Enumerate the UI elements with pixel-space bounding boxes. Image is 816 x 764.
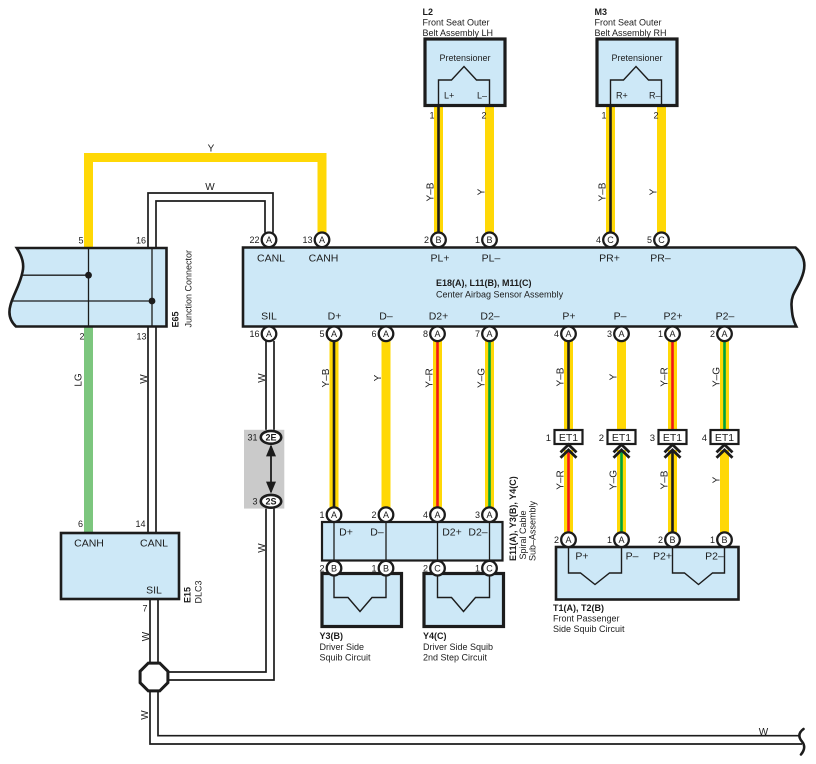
label M3 header: [595, 7, 667, 38]
svg-text:ET1: ET1: [612, 432, 631, 444]
svg-text:Y–B: Y–B: [425, 182, 436, 201]
svg-text:Front Seat Outer: Front Seat Outer: [423, 18, 490, 28]
wire W from junction octagon to right off-page tear: [150, 691, 802, 744]
pin circle 2(B) top of T1/T2 box: [658, 532, 680, 547]
wire Y-B from ET1 pin 3 to T2 2(B): [668, 450, 677, 532]
chevron mark below ET1 pin 3: [665, 445, 681, 458]
svg-text:4: 4: [596, 235, 601, 245]
pin circle 2(A) top of T1/T2 box: [554, 532, 576, 547]
svg-text:C: C: [658, 235, 665, 245]
svg-text:Y: Y: [476, 188, 487, 195]
pin circle 1(A) top of spiral cable: [319, 507, 341, 522]
svg-text:CANH: CANH: [74, 538, 104, 550]
pin numbers of DLC3: [78, 519, 148, 614]
svg-text:B: B: [669, 535, 675, 545]
pin circle 2(A) P2- bottom of center box: [710, 327, 732, 342]
label DLC3 vertical: [194, 580, 204, 603]
top terminal labels inside center box: [257, 253, 671, 265]
svg-text:A: A: [383, 510, 389, 520]
label W vertical segment: [140, 710, 151, 720]
bottom terminal labels inside center box: [261, 311, 734, 323]
pretensioner squib symbol M3: [611, 67, 662, 106]
svg-text:22: 22: [249, 235, 259, 245]
component L2 front seat outer belt assembly LH box: [425, 39, 505, 106]
svg-text:T1(A), T2(B): T1(A), T2(B): [553, 603, 604, 613]
pin circle 7(A) D2- bottom of center box: [475, 327, 497, 342]
connector oval 2S with pin 3: [252, 495, 281, 508]
terminal labels inside spiral cable box: [339, 527, 488, 539]
label Y-R: [659, 367, 670, 386]
svg-text:A: A: [319, 235, 325, 245]
svg-text:1: 1: [607, 535, 612, 545]
pin circle 2(B) bottom of spiral cable: [319, 561, 341, 576]
label W: [139, 374, 150, 384]
label T1(A), T2(B) header: [553, 603, 625, 634]
svg-text:2: 2: [658, 535, 663, 545]
component E65 junction connector box: [9, 248, 166, 327]
label Y: [608, 373, 619, 380]
svg-text:W: W: [140, 710, 151, 720]
svg-text:E15: E15: [183, 587, 193, 603]
pin circle 5(A) D+ bottom of center box: [319, 327, 341, 342]
component T1(A)/T2(B) front passenger side squib circuit box: [556, 547, 739, 600]
svg-text:Y3(B): Y3(B): [320, 631, 344, 641]
svg-text:E11(A), Y3(B), Y4(C): E11(A), Y3(B), Y4(C): [508, 476, 518, 561]
svg-text:Y: Y: [373, 374, 384, 381]
svg-text:D2+: D2+: [429, 311, 449, 323]
wire Y-B from L2 pin 1 to PL+ 2(B): [434, 106, 443, 233]
svg-text:Y–R: Y–R: [555, 470, 566, 489]
svg-text:2: 2: [319, 563, 324, 573]
svg-text:Y–G: Y–G: [608, 470, 619, 490]
pretensioner squib symbol L2: [439, 67, 490, 106]
label L2 header: [423, 7, 494, 38]
svg-text:A: A: [331, 510, 337, 520]
svg-text:1: 1: [475, 563, 480, 573]
label W on white wire: [205, 182, 215, 193]
svg-text:Front Passenger: Front Passenger: [553, 614, 620, 624]
label Y: [373, 374, 384, 381]
svg-text:PR–: PR–: [650, 253, 671, 265]
wire Y-B from 5(A) D+ to spiral cable 1(A): [330, 341, 339, 507]
label Spiral Cable vertical: [518, 510, 528, 559]
svg-text:W: W: [205, 182, 215, 193]
svg-text:L+: L+: [444, 91, 454, 101]
svg-text:P–: P–: [614, 311, 627, 323]
svg-text:L–: L–: [477, 91, 487, 101]
label Y4(C) header: [423, 631, 493, 663]
label W: [257, 543, 268, 553]
internal line D2- through spiral cable: [489, 523, 491, 560]
svg-text:P2+: P2+: [653, 551, 672, 563]
svg-text:2nd Step Circuit: 2nd Step Circuit: [423, 653, 488, 663]
svg-text:2: 2: [371, 510, 376, 520]
component E11/Y3/Y4 spiral cable sub-assembly box: [322, 522, 503, 561]
squib symbol Y3: [334, 574, 386, 612]
svg-text:Center Airbag Sensor Assembly: Center Airbag Sensor Assembly: [436, 290, 564, 300]
svg-text:C: C: [434, 563, 441, 573]
svg-text:Y: Y: [208, 144, 215, 155]
svg-text:1: 1: [371, 563, 376, 573]
connector oval 2E with pin 31: [247, 431, 281, 444]
svg-text:2E: 2E: [265, 433, 276, 443]
internal line D2+ through spiral cable: [437, 523, 439, 560]
wire W (white) from E65 pin 16 to center airbag CANL 22(A): [148, 193, 273, 248]
svg-text:2: 2: [554, 535, 559, 545]
svg-text:Belt Assembly LH: Belt Assembly LH: [423, 28, 494, 38]
label W: [141, 631, 152, 641]
pin 1 and 2 of M3: [601, 111, 658, 121]
pin circle 2(B) PL+ top of center box: [424, 233, 446, 248]
svg-text:31: 31: [247, 433, 257, 443]
svg-text:Y–G: Y–G: [476, 368, 487, 388]
svg-text:2S: 2S: [265, 497, 276, 507]
svg-text:Y–R: Y–R: [424, 368, 435, 387]
svg-text:W: W: [759, 727, 769, 738]
label Y on yellow wire: [208, 144, 215, 155]
label Y-B: [659, 470, 670, 489]
junction octagon (SIL splice): [140, 663, 168, 691]
svg-text:SIL: SIL: [146, 585, 162, 597]
svg-text:7: 7: [142, 604, 147, 614]
wire Y from L2 pin 2 to PL- 1(B): [485, 106, 494, 233]
svg-text:D2–: D2–: [468, 527, 487, 539]
svg-text:A: A: [383, 329, 389, 339]
component Y3(B) driver side squib circuit box: [322, 574, 402, 627]
pin circle 4(A) top of spiral cable: [423, 507, 445, 522]
svg-text:A: A: [618, 329, 624, 339]
svg-text:13: 13: [136, 332, 146, 342]
component E16 DLC3 box: [61, 533, 179, 599]
connector ET1 pin 2: [599, 430, 636, 444]
svg-text:3: 3: [475, 510, 480, 520]
label Y: [476, 188, 487, 195]
label Y-B: [555, 367, 566, 386]
label Pretensioner M3: [611, 53, 662, 63]
wire Y-G from ET1 pin 2 to T1 1(A): [617, 450, 626, 532]
svg-text:Sub–Assembly: Sub–Assembly: [528, 500, 538, 561]
connector ET1 pin 4: [702, 430, 739, 444]
label Y-G: [608, 470, 619, 490]
svg-text:P+: P+: [562, 311, 575, 323]
svg-text:W: W: [139, 374, 150, 384]
svg-text:Side Squib Circuit: Side Squib Circuit: [553, 624, 625, 634]
pin circle 6(A) D- bottom of center box: [371, 327, 393, 342]
chevron mark below ET1 pin 2: [614, 445, 630, 458]
label Y: [711, 476, 722, 483]
svg-text:CANL: CANL: [140, 538, 168, 550]
label Y: [648, 188, 659, 195]
wire Y from 6(A) D- to spiral cable 2(A): [382, 341, 391, 507]
svg-text:P2–: P2–: [705, 551, 724, 563]
chevron mark below ET1 pin 4: [717, 445, 733, 458]
svg-text:P–: P–: [626, 551, 639, 563]
pin circle 1(B) top of T1/T2 box: [710, 532, 732, 547]
svg-text:2: 2: [481, 111, 486, 121]
wire Y-R from ET1 pin 1 to T1 2(A): [564, 450, 573, 532]
svg-text:PL+: PL+: [431, 253, 450, 265]
label E11(A), Y3(B), Y4(C) vertical: [508, 476, 518, 561]
label Y-B: [321, 368, 332, 387]
chevron mark below ET1 pin 1: [561, 445, 577, 458]
pin circle 16(A) SIL bottom of center box: [249, 327, 276, 342]
label Sub-Assembly vertical: [528, 500, 538, 561]
pin circle 1(A) top of T1/T2 box: [607, 532, 629, 547]
pin 1 and 2 of L2: [429, 111, 486, 121]
svg-text:R–: R–: [649, 91, 661, 101]
wire Y (yellow) from E65 pin 5 to center airbag CANH 13(A): [89, 158, 323, 249]
squib symbol T2(B): [673, 547, 725, 585]
svg-text:A: A: [669, 329, 675, 339]
pin numbers of E65: [78, 236, 146, 342]
svg-text:A: A: [486, 329, 492, 339]
label W: [257, 373, 268, 383]
svg-text:D2–: D2–: [480, 311, 499, 323]
svg-text:Spiral Cable: Spiral Cable: [518, 510, 528, 559]
pin circle 4(A) P+ bottom of center box: [554, 327, 576, 342]
svg-text:Driver Side Squib: Driver Side Squib: [423, 642, 493, 652]
terminal labels inside T1/T2 box: [575, 551, 724, 563]
svg-text:W: W: [141, 631, 152, 641]
svg-text:A: A: [721, 329, 727, 339]
svg-text:W: W: [257, 373, 268, 383]
svg-text:Y: Y: [711, 476, 722, 483]
internal horizontal bus 1 with junction dot: [21, 272, 92, 279]
svg-text:7: 7: [475, 329, 480, 339]
svg-text:E65: E65: [171, 311, 181, 327]
label Y-B: [597, 182, 608, 201]
wire Y from M3 pin 2 to PR- 5(C): [657, 106, 666, 233]
label L+ L-: [444, 91, 487, 101]
svg-text:A: A: [434, 510, 440, 520]
internal line D+ through spiral cable: [333, 523, 335, 560]
svg-text:ET1: ET1: [715, 432, 734, 444]
svg-text:A: A: [565, 329, 571, 339]
svg-text:1: 1: [546, 433, 551, 444]
off-page tear mark on W wire: [799, 729, 804, 755]
connector block 2E/2S gray background: [244, 430, 284, 509]
svg-text:Front Seat Outer: Front Seat Outer: [595, 18, 662, 28]
label Y-G: [711, 367, 722, 387]
svg-text:L2: L2: [423, 7, 434, 17]
svg-text:C: C: [607, 235, 614, 245]
svg-text:E18(A), L11(B), M11(C): E18(A), L11(B), M11(C): [436, 278, 532, 288]
label Y-B: [425, 182, 436, 201]
internal horizontal bus 2 with junction dot: [11, 298, 156, 305]
svg-text:A: A: [266, 329, 272, 339]
wire Y-G from 2(A) P2- to ET1 pin 4: [720, 341, 729, 430]
svg-text:Y–R: Y–R: [659, 367, 670, 386]
pin circle 2(C) bottom of spiral cable: [423, 561, 445, 576]
svg-text:Driver Side: Driver Side: [320, 642, 365, 652]
svg-text:1: 1: [429, 111, 434, 121]
label E15 vertical: [183, 587, 193, 603]
wire Y-R from 8(A) D2+ to spiral cable 4(A): [433, 341, 442, 507]
svg-text:8: 8: [423, 329, 428, 339]
svg-text:16: 16: [136, 236, 146, 246]
svg-text:D+: D+: [339, 527, 353, 539]
svg-text:1: 1: [710, 535, 715, 545]
component E18/L11/M11 center airbag sensor assembly box: [243, 248, 804, 327]
svg-text:M3: M3: [595, 7, 608, 17]
svg-text:A: A: [486, 510, 492, 520]
svg-text:Y: Y: [608, 373, 619, 380]
svg-text:1: 1: [319, 510, 324, 520]
svg-text:Y–G: Y–G: [711, 367, 722, 387]
svg-text:W: W: [257, 543, 268, 553]
svg-text:Squib Circuit: Squib Circuit: [320, 653, 372, 663]
pin circle 1(A) P2+ bottom of center box: [658, 327, 680, 342]
svg-text:Pretensioner: Pretensioner: [439, 53, 490, 63]
svg-text:3: 3: [650, 433, 655, 444]
svg-text:A: A: [565, 535, 571, 545]
internal bus line pin16-pin13 inside E65: [151, 248, 153, 326]
pin circle 3(A) P- bottom of center box: [607, 327, 629, 342]
label Y-G: [476, 368, 487, 388]
label Y3(B) header: [320, 631, 372, 663]
label R+ R-: [616, 91, 661, 101]
svg-text:D–: D–: [379, 311, 393, 323]
label Y-R: [555, 470, 566, 489]
svg-text:Junction Connector: Junction Connector: [184, 250, 194, 328]
svg-text:6: 6: [371, 329, 376, 339]
svg-text:P2–: P2–: [716, 311, 735, 323]
svg-text:Belt Assembly RH: Belt Assembly RH: [595, 28, 667, 38]
svg-text:2: 2: [599, 433, 604, 444]
svg-text:B: B: [486, 235, 492, 245]
svg-text:1: 1: [475, 235, 480, 245]
svg-text:D2+: D2+: [442, 527, 462, 539]
svg-text:D–: D–: [370, 527, 384, 539]
svg-text:14: 14: [135, 519, 145, 529]
svg-text:R+: R+: [616, 91, 628, 101]
wire Y-B from 4(A) P+ to ET1 pin 1: [564, 341, 573, 430]
svg-text:4: 4: [423, 510, 428, 520]
svg-text:B: B: [435, 235, 441, 245]
svg-text:Y–B: Y–B: [555, 367, 566, 386]
label E65 vertical: [171, 311, 181, 327]
svg-text:PL–: PL–: [482, 253, 501, 265]
component Y4(C) driver side squib 2nd step circuit box: [424, 574, 504, 627]
label Junction Connector vertical: [184, 250, 194, 328]
svg-text:16: 16: [249, 329, 259, 339]
wire W from E65 pin 13 to DLC3 CANL pin 14: [148, 327, 156, 534]
svg-text:2: 2: [424, 235, 429, 245]
pin circle 1(C) bottom of spiral cable: [475, 561, 497, 576]
svg-text:CANL: CANL: [257, 253, 285, 265]
svg-text:ET1: ET1: [559, 432, 578, 444]
svg-text:3: 3: [607, 329, 612, 339]
svg-text:5: 5: [647, 235, 652, 245]
svg-text:2: 2: [710, 329, 715, 339]
svg-text:P2+: P2+: [664, 311, 683, 323]
label W horizontal segment: [759, 727, 769, 738]
svg-text:1: 1: [658, 329, 663, 339]
svg-text:SIL: SIL: [261, 311, 277, 323]
connector ET1 pin 3: [650, 430, 687, 444]
svg-text:3: 3: [252, 497, 257, 507]
svg-text:B: B: [383, 563, 389, 573]
wire Y from ET1 pin 4 to T2 1(B): [720, 450, 729, 532]
svg-text:4: 4: [554, 329, 559, 339]
svg-text:Y–B: Y–B: [321, 368, 332, 387]
svg-text:B: B: [331, 563, 337, 573]
label Y-R: [424, 368, 435, 387]
internal line D- through spiral cable: [385, 523, 387, 560]
wire Y-R from 1(A) P2+ to ET1 pin 3: [668, 341, 677, 430]
svg-text:D+: D+: [328, 311, 342, 323]
svg-text:P+: P+: [575, 551, 588, 563]
wire Y-B from M3 pin 1 to PR+ 4(C): [606, 106, 615, 233]
svg-text:5: 5: [78, 236, 83, 246]
svg-text:A: A: [618, 535, 624, 545]
svg-text:2: 2: [423, 563, 428, 573]
pin circle 3(A) top of spiral cable: [475, 507, 497, 522]
pin circle 4(C) PR+ top of center box: [596, 233, 618, 248]
wire W from connector 2S to junction octagon: [168, 507, 274, 680]
pin circle 22(A) CANL top of center box: [249, 233, 276, 248]
svg-text:ET1: ET1: [663, 432, 682, 444]
svg-text:PR+: PR+: [599, 253, 620, 265]
svg-text:2: 2: [653, 111, 658, 121]
pin circle 13(A) CANH top of center box: [302, 233, 329, 248]
wire Y from 3(A) P- to ET1 pin 2: [617, 341, 626, 430]
internal bus line pin5-pin2 inside E65: [88, 248, 90, 326]
wire W from DLC3 SIL pin 7 to junction octagon: [150, 599, 158, 663]
svg-text:13: 13: [302, 235, 312, 245]
svg-text:6: 6: [78, 519, 83, 529]
label LG: [74, 373, 85, 387]
wire W (SIL) from center airbag 16(A) to connector 2E: [266, 341, 274, 431]
svg-text:Y: Y: [648, 188, 659, 195]
connector ET1 pin 1: [546, 430, 583, 444]
pin circle 2(A) top of spiral cable: [371, 507, 393, 522]
svg-text:Pretensioner: Pretensioner: [611, 53, 662, 63]
pin circle 1(B) bottom of spiral cable: [371, 561, 393, 576]
svg-text:LG: LG: [74, 373, 85, 387]
svg-text:A: A: [266, 235, 272, 245]
svg-text:2: 2: [79, 332, 84, 342]
label Pretensioner L2: [439, 53, 490, 63]
svg-text:Y–B: Y–B: [597, 182, 608, 201]
pin circle 5(C) PR- top of center box: [647, 233, 669, 248]
svg-text:4: 4: [702, 433, 707, 444]
svg-text:1: 1: [601, 111, 606, 121]
svg-text:A: A: [331, 329, 337, 339]
svg-text:5: 5: [319, 329, 324, 339]
pin circle 1(B) PL- top of center box: [475, 233, 497, 248]
label E18(A), L11(B), M11(C) / Center Airbag Sensor Assembly: [436, 278, 564, 300]
squib symbol Y4: [438, 574, 490, 612]
terminal labels inside DLC3: [74, 538, 168, 597]
svg-text:C: C: [486, 563, 493, 573]
wire Y-G from 7(A) D2- to spiral cable 3(A): [485, 341, 494, 507]
svg-text:Y–B: Y–B: [659, 470, 670, 489]
svg-text:Y4(C): Y4(C): [423, 631, 447, 641]
svg-text:B: B: [721, 535, 727, 545]
svg-text:A: A: [434, 329, 440, 339]
svg-text:DLC3: DLC3: [194, 580, 204, 603]
wire LG (light green) from E65 pin 2 to DLC3 CANH pin 6: [84, 327, 93, 534]
component M3 front seat outer belt assembly RH box: [597, 39, 677, 106]
svg-text:CANH: CANH: [309, 253, 339, 265]
pin circle 8(A) D2+ bottom of center box: [423, 327, 445, 342]
squib symbol T1(A): [569, 547, 622, 585]
arrow between 2E and 2S: [266, 444, 276, 493]
